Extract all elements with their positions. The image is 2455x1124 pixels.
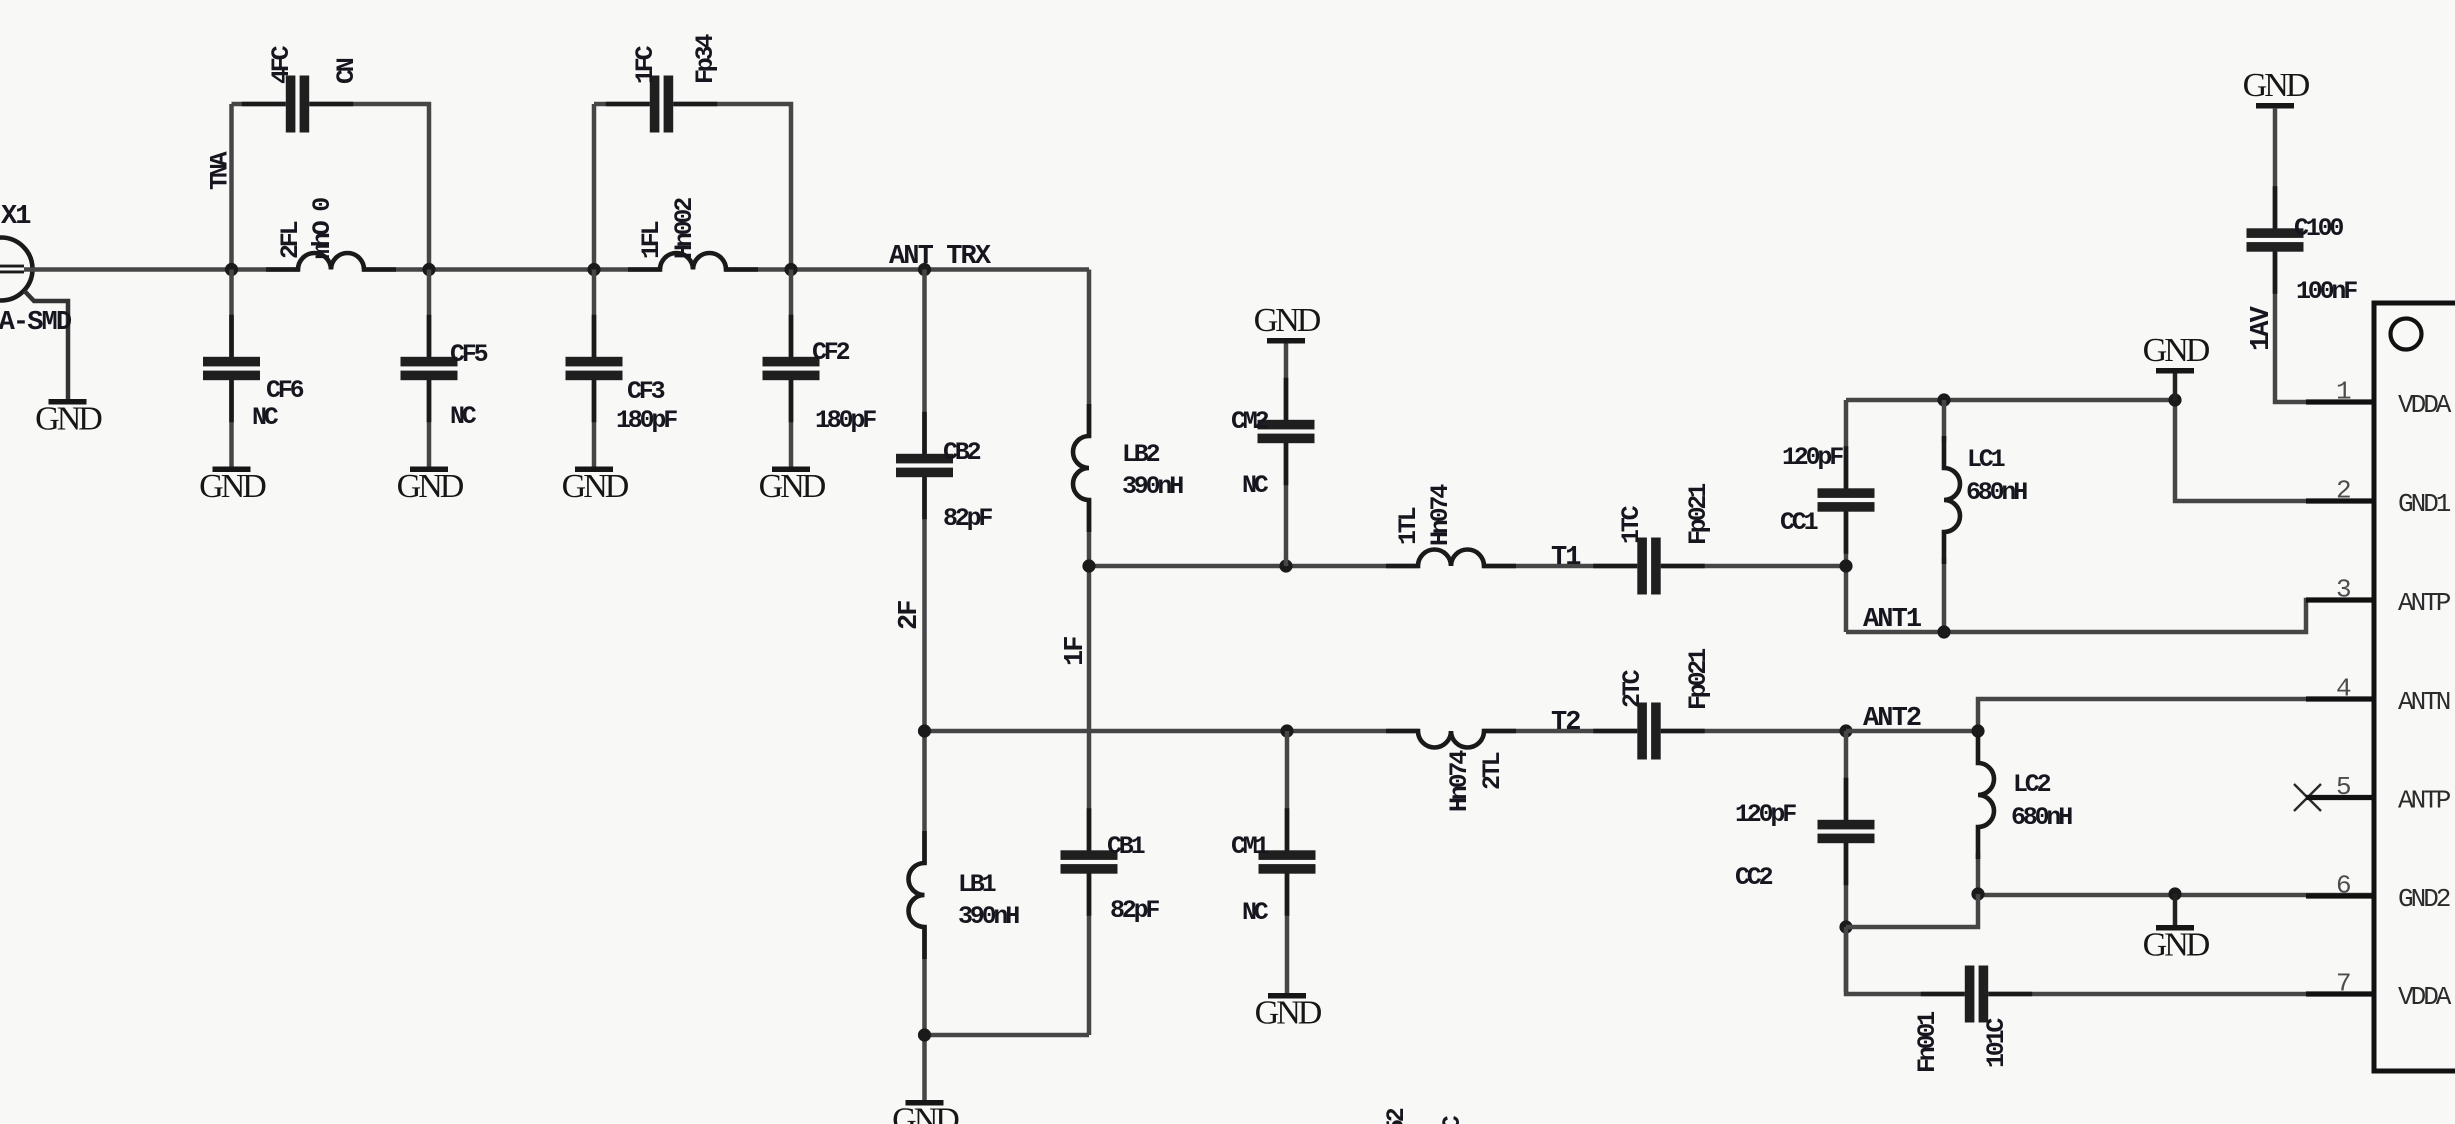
svg-text:1FL: 1FL (637, 221, 666, 259)
inductor LF2 0 Ohm (eraser) (299, 266, 363, 272)
wire main antenna line (24, 267, 1089, 272)
junction F2/CB1 bottom (918, 1028, 931, 1041)
svg-text:ANT1: ANT1 (1863, 605, 1922, 635)
svg-text:Hn074: Hn074 (1445, 750, 1474, 812)
ground (F2 bottom) (892, 1100, 959, 1124)
svg-text:LB2: LB2 (1122, 440, 1160, 469)
ground (C100) (2243, 67, 2310, 109)
svg-text:82pF: 82pF (1110, 896, 1159, 925)
junction LC1 bottom (1937, 625, 1950, 638)
svg-text:GND: GND (2243, 67, 2310, 104)
wire C101 to pin7 (1846, 927, 2374, 994)
wire CF3 down (592, 270, 597, 468)
ground (CF2) (759, 467, 826, 506)
pin 6 stub (2306, 893, 2374, 898)
svg-text:1F: 1F (1061, 637, 1091, 666)
wire CF6 down (229, 270, 234, 468)
wire CM2 up (1284, 343, 1289, 566)
svg-text:Fp021: Fp021 (1684, 649, 1713, 710)
inductor LC1 680nH (1944, 436, 1960, 564)
wire CF5 down (427, 270, 432, 468)
svg-text:CC2: CC2 (1735, 863, 1773, 892)
svg-text:GND: GND (35, 401, 102, 438)
svg-text:3: 3 (2336, 575, 2352, 605)
svg-text:ANT TRX: ANT TRX (889, 242, 992, 272)
capacitor C101 (1921, 966, 2032, 1023)
svg-text:1TC: 1TC (1617, 505, 1646, 544)
wire LC2 bottom lead (1976, 853, 1981, 894)
svg-text:GND1: GND1 (2398, 489, 2451, 519)
svg-text:100nF: 100nF (2296, 277, 2357, 306)
svg-text:1FC: 1FC (631, 45, 660, 84)
capacitor CF1 (606, 76, 717, 133)
svg-text:680nH: 680nH (2011, 803, 2072, 832)
svg-text:LB1: LB1 (958, 870, 996, 899)
wire LC1 bottom (1942, 558, 1947, 632)
wire GND stub (2173, 373, 2178, 400)
svg-text:390nH: 390nH (1122, 472, 1183, 501)
svg-text:Hn074: Hn074 (1426, 484, 1455, 546)
pin 2 stub (2306, 498, 2374, 503)
wire CF1 branch up (592, 104, 597, 270)
svg-text:Fp021: Fp021 (1684, 484, 1713, 545)
svg-text:6: 6 (2336, 871, 2352, 901)
inductor LB1 390nH (eraser) (921, 864, 927, 926)
capacitor CM2 (1258, 378, 1315, 485)
svg-text:2TC: 2TC (1618, 669, 1647, 708)
wire GND2 stub (2173, 894, 2178, 925)
junction LC1 top (1937, 393, 1950, 406)
svg-text:X1: X1 (1, 202, 31, 232)
inductor LT1 470nH (eraser) (1419, 563, 1483, 569)
junction CM1/T2 (1280, 724, 1293, 737)
inductor LC1 680nH (eraser) (1941, 469, 1947, 531)
ground (CM2) (1254, 302, 1321, 344)
wire LC1 top (1942, 400, 1947, 442)
svg-text:GND: GND (892, 1102, 959, 1124)
svg-text:VDDA: VDDA (2398, 982, 2452, 1012)
wire top rail to pin2 (1846, 400, 2374, 501)
capacitor CF2 (763, 315, 820, 422)
wire CF2 down (789, 270, 794, 468)
wire T1 rail (1089, 564, 1846, 569)
svg-text:mhO 0: mhO 0 (308, 198, 337, 259)
junction LB2/T1 (1082, 559, 1095, 572)
inductor LC2 680nH (1978, 731, 1994, 859)
svg-text:TNA: TNA (206, 151, 235, 190)
pin 1 stub (2306, 399, 2374, 404)
wire ANT2 rail (1846, 729, 1978, 734)
svg-text:GND: GND (397, 468, 464, 505)
no-connect X (pin 5) (2294, 784, 2321, 811)
svg-text:Fn001: Fn001 (1913, 1012, 1942, 1073)
svg-text:NC: NC (1242, 471, 1269, 500)
svg-text:CC1: CC1 (1780, 508, 1818, 537)
svg-text:GND2: GND2 (2398, 884, 2450, 914)
svg-text:4FC: 4FC (267, 45, 296, 84)
svg-text:NC: NC (252, 403, 279, 432)
inductor LC2 680nH (eraser) (1975, 764, 1981, 826)
wire ANT2 to pin4 (1978, 699, 2374, 731)
svg-text:82pF: 82pF (943, 504, 992, 533)
ground (CM1) (1255, 993, 1322, 1032)
inductor LF2 0 Ohm (266, 253, 396, 269)
svg-text:CF5: CF5 (450, 340, 488, 369)
junction CF4/LF2 right (422, 263, 435, 276)
capacitor CF6 (203, 315, 260, 422)
svg-text:CF3: CF3 (627, 377, 665, 406)
wire CC1 vertical (1844, 400, 1849, 632)
capacitor CB2 (896, 412, 953, 519)
junction ANT2/CC2 (1839, 724, 1852, 737)
junction node ANT TRX (918, 263, 931, 276)
svg-text:T1: T1 (1551, 543, 1581, 573)
svg-text:GND: GND (562, 468, 629, 505)
wire CF1 top branch (594, 104, 791, 270)
svg-text:101C: 101C (1982, 1018, 2011, 1068)
junction CF1/LF1 right (784, 263, 797, 276)
wire F1 vertical (1087, 270, 1092, 1036)
svg-text:CB1: CB1 (1107, 832, 1145, 861)
svg-text:GND: GND (199, 468, 266, 505)
inductor LF1 200nH (628, 253, 758, 269)
junction GND stub top rail (2168, 393, 2181, 406)
junction CF1/LF1 left (587, 263, 600, 276)
svg-text:VDDA: VDDA (2398, 390, 2452, 420)
wire F2 vertical (922, 270, 927, 1101)
svg-text:120pF: 120pF (1782, 443, 1843, 472)
svg-text:CM1: CM1 (1231, 832, 1269, 861)
svg-text:ANTN: ANTN (2398, 687, 2450, 717)
svg-text:ANTP: ANTP (2398, 786, 2451, 816)
wire LC2 bottom elbow (1846, 894, 1978, 927)
svg-text:Hn002: Hn002 (670, 198, 699, 259)
svg-text:GND: GND (2143, 927, 2210, 964)
svg-text:Fp34: Fp34 (691, 34, 720, 84)
svg-text:2FL: 2FL (276, 221, 305, 259)
junction CM2/T1 (1279, 559, 1292, 572)
svg-text:GND: GND (759, 468, 826, 505)
pin 5 stub (2306, 795, 2374, 800)
junction CC2 bottom (1839, 920, 1852, 933)
inductor LB2 390nH (1073, 404, 1089, 532)
svg-text:LC2: LC2 (2013, 770, 2051, 799)
svg-text:CF2: CF2 (812, 338, 850, 367)
inductor LF1 200nH (eraser) (661, 266, 725, 272)
capacitor CC1 (1818, 446, 1875, 553)
svg-text:180pF: 180pF (616, 406, 677, 435)
junction T1/CC1 (1839, 559, 1852, 572)
ground (CF6) (199, 467, 266, 506)
svg-text:5: 5 (2336, 772, 2352, 802)
junction LC2 top (1971, 724, 1984, 737)
svg-text:CM2: CM2 (1231, 407, 1269, 436)
svg-text:52: 52 (1382, 1108, 1411, 1124)
pin 4 stub (2306, 696, 2374, 701)
junction node ANT (225, 263, 238, 276)
connector X1 (SMA-SMD) (0, 238, 68, 400)
ground (top rail) (2143, 332, 2210, 374)
capacitor CF4 (242, 76, 353, 133)
capacitor CB1 (1061, 808, 1118, 915)
wire CF4 top branch (232, 104, 430, 270)
capacitor CF5 (401, 315, 458, 422)
wire CC2 vertical (1844, 731, 1849, 992)
inductor LB1 390nH (909, 831, 925, 959)
pin 7 stub (2306, 991, 2374, 996)
svg-text:1: 1 (2336, 377, 2352, 407)
svg-text:680nH: 680nH (1966, 478, 2027, 507)
capacitor CC2 (1818, 778, 1875, 885)
capacitor CT2 (1593, 703, 1704, 760)
ground (GND2) (2143, 925, 2210, 964)
wire LC2 bottom to pin6 (1978, 893, 2374, 898)
svg-text:CN: CN (332, 58, 361, 84)
junction GND2 stub (2168, 887, 2181, 900)
svg-text:T2: T2 (1551, 708, 1580, 738)
svg-text:NC: NC (1242, 898, 1269, 927)
svg-text:CF6: CF6 (266, 376, 304, 405)
svg-text:GND: GND (1254, 302, 1321, 339)
svg-text:2F: 2F (895, 601, 925, 630)
wire ANT1 to pin3 (1846, 600, 2374, 632)
capacitor C100 (2247, 186, 2304, 293)
svg-text:7: 7 (2336, 969, 2352, 999)
svg-text:GND: GND (2143, 332, 2210, 369)
svg-text:CB2: CB2 (943, 438, 981, 467)
pin 3 stub (2306, 597, 2374, 602)
svg-text:2: 2 (2336, 476, 2352, 506)
capacitor CM1 (1259, 808, 1316, 915)
capacitor CF3 (566, 315, 623, 422)
svg-text:2TL: 2TL (1478, 752, 1507, 790)
inductor LT1 470nH (1386, 550, 1516, 567)
svg-text:ANTP: ANTP (2398, 588, 2451, 618)
svg-text:1AV: 1AV (2247, 305, 2277, 351)
junction LC2 bottom (1971, 887, 1984, 900)
inductor LB2 390nH (eraser) (1086, 437, 1092, 499)
ground (CF3) (562, 467, 629, 506)
svg-text:180pF: 180pF (815, 406, 876, 435)
svg-text:4: 4 (2336, 674, 2352, 704)
ground (X1) (35, 399, 102, 438)
wire CB1 bottom to F2 (925, 1033, 1090, 1038)
svg-text:NC: NC (450, 402, 477, 431)
svg-text:C100: C100 (2294, 214, 2343, 243)
svg-text:390nH: 390nH (958, 902, 1019, 931)
junction F2/T2 (918, 724, 931, 737)
ground (CF5) (397, 467, 464, 506)
inductor LT2 470nH (1386, 731, 1516, 748)
wire VA1 to pin1 (2275, 108, 2374, 402)
wire CM1 down (1285, 731, 1290, 993)
IC U1 body (2374, 303, 2455, 1071)
wire ANT branch up (229, 104, 234, 270)
wire pin5 stub (2310, 795, 2374, 800)
capacitor CT1 (1593, 538, 1704, 595)
inductor LT2 470nH (eraser) (1419, 728, 1483, 734)
svg-text:SMA-SMD: SMA-SMD (0, 308, 72, 338)
svg-text:GND: GND (1255, 995, 1322, 1032)
svg-text:1TL: 1TL (1394, 507, 1423, 545)
svg-text:120pF: 120pF (1735, 800, 1796, 829)
wire T2 rail (925, 729, 1847, 734)
svg-text:LC1: LC1 (1967, 445, 2005, 474)
